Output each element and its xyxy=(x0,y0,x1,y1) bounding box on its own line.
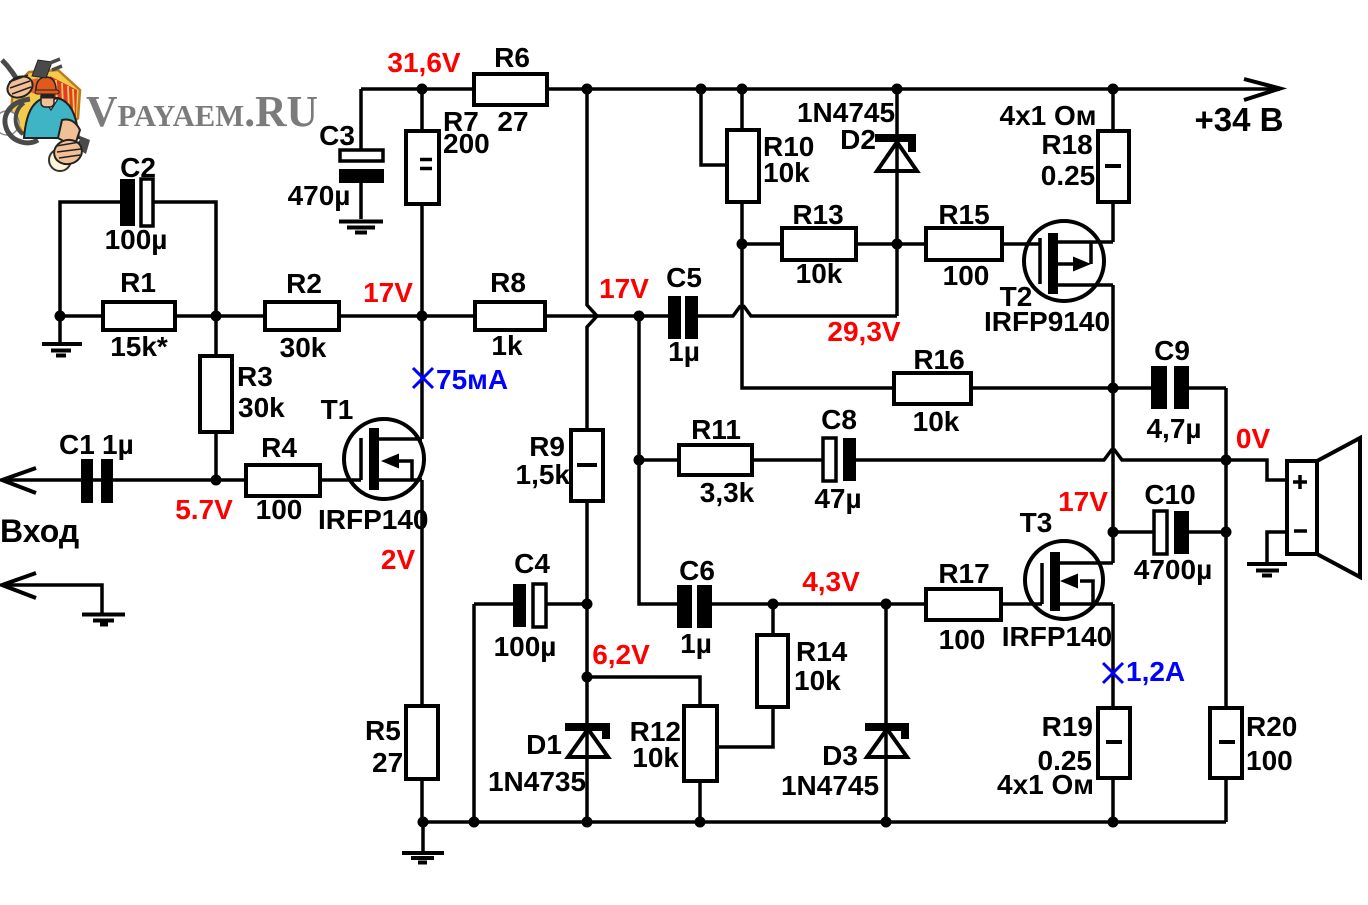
diode D3 zener 1N4745 xyxy=(865,723,909,757)
svg-text:100: 100 xyxy=(1246,745,1293,776)
wire rail tap to R10 left side xyxy=(701,89,727,165)
svg-text:C6: C6 xyxy=(679,555,715,586)
wire T1 source to R5 to bottom rail xyxy=(420,480,424,822)
svg-text:27: 27 xyxy=(497,106,528,137)
wire D2 node down to C5 wire corner xyxy=(895,244,899,316)
svg-text:27: 27 xyxy=(372,747,403,778)
svg-text:C8: C8 xyxy=(821,404,857,435)
svg-text:C1: C1 xyxy=(59,429,95,460)
resistor R18 xyxy=(1098,131,1129,202)
node 0V xyxy=(1221,455,1232,466)
svg-text:0.25: 0.25 xyxy=(1041,160,1096,191)
svg-text:30k: 30k xyxy=(280,332,327,363)
node rail-R7 xyxy=(417,84,428,95)
ground C3 xyxy=(339,222,383,233)
wire R13 node down through hop to R16 row xyxy=(742,244,894,388)
svg-text:31,6V: 31,6V xyxy=(387,47,460,78)
wire rail to R10 to R13 node xyxy=(740,89,744,244)
svg-text:4,7µ: 4,7µ xyxy=(1146,413,1201,444)
svg-text:470µ: 470µ xyxy=(288,180,351,211)
wire C3 to ground xyxy=(359,183,363,219)
capacitor C6 xyxy=(677,585,712,628)
current mark 75mA xyxy=(413,368,433,388)
wire R14 bottom to R12 right side xyxy=(717,707,773,747)
wire R17 to T3 gate xyxy=(1001,602,1042,606)
svg-text:1µ: 1µ xyxy=(102,429,134,460)
wire C5 right to D2 node corner with hop at 742 xyxy=(698,307,897,317)
node rail-tap xyxy=(696,84,707,95)
svg-text:C10: C10 xyxy=(1144,479,1195,510)
svg-text:T3: T3 xyxy=(1020,507,1053,538)
wire C5 node down R11 down to C6 row xyxy=(639,316,677,604)
logo left fist xyxy=(4,72,36,101)
wire C3 stub top xyxy=(359,89,363,151)
power arrow +34V xyxy=(1244,79,1280,100)
svg-text:C4: C4 xyxy=(514,548,550,579)
node rail-D1 xyxy=(582,817,593,828)
resistor R20 xyxy=(1210,708,1242,778)
wire R16 right to output node xyxy=(971,386,1113,390)
svg-text:R18: R18 xyxy=(1041,129,1092,160)
logo badge xyxy=(11,70,80,138)
svg-text:10k: 10k xyxy=(796,258,843,289)
capacitor C5 xyxy=(668,296,698,339)
svg-text:15k*: 15k* xyxy=(110,331,168,362)
node rail-C4 xyxy=(469,817,480,828)
ground input xyxy=(82,615,125,625)
wire C2 loop right leg xyxy=(154,202,216,316)
resistor R13 xyxy=(782,228,856,260)
node rail-R18 xyxy=(1108,84,1119,95)
node rail-R9 xyxy=(582,84,593,95)
svg-text:+34 В: +34 В xyxy=(1195,101,1284,138)
resistor R17 xyxy=(926,589,1001,620)
svg-text:100: 100 xyxy=(939,624,986,655)
wire C9 right to output column xyxy=(1189,386,1226,390)
svg-text:17V: 17V xyxy=(599,273,649,304)
node R11 branch xyxy=(634,455,645,466)
svg-text:10k: 10k xyxy=(632,742,679,773)
wire C8 to 0V node with hop at 1113 xyxy=(856,450,1226,460)
svg-text:10k: 10k xyxy=(794,665,841,696)
logo torso xyxy=(24,98,79,138)
svg-text:R5: R5 xyxy=(365,715,401,746)
input arrow xyxy=(2,468,36,493)
wire R13 right to R15 left xyxy=(856,242,926,246)
node rail-R12 xyxy=(695,817,706,828)
wire C10 right to output column xyxy=(1189,530,1226,534)
svg-text:100: 100 xyxy=(256,494,303,525)
logo plug xyxy=(32,60,52,78)
svg-text:D3: D3 xyxy=(822,740,858,771)
svg-text:29,3V: 29,3V xyxy=(827,316,900,347)
node 6.2V xyxy=(582,672,593,683)
wire rail to R9 with sideways hop over main row xyxy=(587,89,597,604)
wire D3 column xyxy=(884,604,888,822)
resistor R15 xyxy=(926,228,1002,260)
resistor R2 xyxy=(265,302,339,330)
resistor R6 xyxy=(474,74,547,105)
node rail-D3 xyxy=(881,817,892,828)
svg-text:1,2A: 1,2A xyxy=(1126,656,1185,687)
diode D2 zener 1N4745 xyxy=(875,134,917,171)
wire C4 to R9 node xyxy=(546,602,587,606)
node C4-R9 xyxy=(582,599,593,610)
svg-text:1N4735: 1N4735 xyxy=(488,766,586,797)
logo white coil circle xyxy=(0,111,19,135)
capacitor C1 xyxy=(81,459,113,503)
wire 6.2V row to R12 top xyxy=(587,677,700,706)
svg-text:R8: R8 xyxy=(490,267,526,298)
logo cable loops xyxy=(5,99,38,143)
resistor R4 xyxy=(246,465,320,496)
wire C2 loop left leg xyxy=(60,202,120,316)
svg-text:Vpayaem.RU: Vpayaem.RU xyxy=(86,87,318,136)
svg-text:R20: R20 xyxy=(1246,711,1297,742)
svg-text:C9: C9 xyxy=(1154,335,1190,366)
svg-text:5.7V: 5.7V xyxy=(175,494,233,525)
svg-text:R13: R13 xyxy=(792,199,843,230)
ground R1 xyxy=(42,316,82,356)
svg-text:R19: R19 xyxy=(1042,711,1093,742)
svg-text:100µ: 100µ xyxy=(494,631,557,662)
wire C10 row left xyxy=(1113,530,1154,534)
svg-text:R3: R3 xyxy=(237,361,273,392)
resistor R16 xyxy=(894,373,971,404)
svg-text:17V: 17V xyxy=(363,277,413,308)
resistor R10 xyxy=(727,130,759,202)
wire R7/T1 column xyxy=(420,89,424,439)
node T3-C10 xyxy=(1108,527,1119,538)
node rail-R10 xyxy=(737,84,748,95)
svg-text:10k: 10k xyxy=(763,157,810,188)
wire rail to R18 to T2 top stub xyxy=(1111,89,1115,242)
svg-text:R11: R11 xyxy=(691,414,741,445)
node D2-R13-R15 xyxy=(892,239,903,250)
node C1-R3-R4 xyxy=(211,475,222,486)
svg-text:0V: 0V xyxy=(1236,423,1271,454)
logo helmet xyxy=(36,77,56,93)
svg-text:6,2V: 6,2V xyxy=(592,639,650,670)
wire R11 row left xyxy=(639,458,679,462)
svg-text:R14: R14 xyxy=(796,636,848,667)
node C6-D3 xyxy=(881,599,892,610)
capacitor C3 xyxy=(339,150,384,183)
wire C6 to R17 row xyxy=(712,602,926,606)
wire R15 to T2 gate xyxy=(1002,242,1040,246)
svg-text:R17: R17 xyxy=(938,558,989,589)
wire R9 bottom to 6.2V node to D1 to bottom rail xyxy=(585,604,589,822)
svg-text:3,3k: 3,3k xyxy=(700,477,755,508)
diode D1 zener 1N4735 xyxy=(565,723,610,757)
wire main ground stub xyxy=(421,822,425,851)
transistor T3 IRFP140 xyxy=(1025,541,1113,619)
svg-text:R6: R6 xyxy=(494,42,530,73)
svg-text:2V: 2V xyxy=(381,544,416,575)
svg-text:R4: R4 xyxy=(261,432,297,463)
wire top +34V rail xyxy=(361,87,1280,91)
ground main xyxy=(402,853,444,863)
resistor R3 xyxy=(200,356,232,432)
svg-text:4x1 Ом: 4x1 Ом xyxy=(1000,100,1097,131)
svg-text:IRFP140: IRFP140 xyxy=(318,504,429,535)
svg-text:10k: 10k xyxy=(913,406,960,437)
svg-text:75мА: 75мА xyxy=(436,364,508,395)
wire R11 to C8 xyxy=(752,458,823,462)
capacitor C2 xyxy=(120,179,153,226)
logo face xyxy=(41,92,54,107)
wire output node to C9 xyxy=(1113,386,1151,390)
resistor R8 xyxy=(475,302,545,330)
svg-text:4x1 Ом: 4x1 Ом xyxy=(997,769,1094,800)
resistor R7 xyxy=(406,131,439,204)
wire rail to D2 to R13/R15 node xyxy=(895,89,899,244)
node C6-R14 xyxy=(768,599,779,610)
resistor R11 xyxy=(679,445,752,475)
resistor R14 xyxy=(757,635,788,707)
wire C9 right down output column to R20 to bottom rail xyxy=(1224,388,1228,822)
wire R14 top stub xyxy=(771,604,775,635)
speaker xyxy=(1287,438,1360,577)
svg-text:47µ: 47µ xyxy=(814,483,861,514)
svg-text:200: 200 xyxy=(443,128,490,159)
node R1-R2-C2 xyxy=(211,311,222,322)
svg-text:D2: D2 xyxy=(840,124,876,155)
svg-text:1k: 1k xyxy=(491,330,523,361)
svg-text:1,5k: 1,5k xyxy=(516,459,571,490)
wire input row C1 R4 to T1 gate xyxy=(2,478,361,482)
svg-text:R1: R1 xyxy=(120,267,156,298)
wire bottom ground rail xyxy=(423,820,1226,824)
resistor R9 xyxy=(571,430,603,501)
svg-text:4,3V: 4,3V xyxy=(802,566,860,597)
svg-text:1N4745: 1N4745 xyxy=(781,770,879,801)
node rail-gnd xyxy=(418,817,429,828)
wire T3 source to R19 to bottom rail xyxy=(1111,604,1115,822)
node C2-R1 left xyxy=(55,311,66,322)
wire R12 bottom to rail xyxy=(698,781,702,822)
svg-text:Вход: Вход xyxy=(0,513,79,549)
svg-text:T1: T1 xyxy=(321,394,354,425)
wire C4 left leg down to bottom rail xyxy=(472,604,476,822)
capacitor C10 xyxy=(1154,511,1189,554)
svg-text:R15: R15 xyxy=(938,199,989,230)
wire speaker minus to ground xyxy=(1267,532,1287,562)
resistor R1 xyxy=(103,302,175,330)
svg-text:IRFP9140: IRFP9140 xyxy=(984,306,1110,337)
svg-text:C3: C3 xyxy=(319,120,355,151)
resistor R5 xyxy=(406,706,438,779)
node C5 branch xyxy=(634,311,645,322)
node rail-D2 xyxy=(892,84,903,95)
svg-text:100: 100 xyxy=(943,260,990,291)
capacitor C8 xyxy=(823,438,856,481)
node C10-R20 col xyxy=(1221,527,1232,538)
node rail-R19 xyxy=(1108,817,1119,828)
wire input ground arm xyxy=(2,585,102,613)
svg-text:R9: R9 xyxy=(529,431,565,462)
svg-text:R16: R16 xyxy=(913,344,964,375)
svg-text:17V: 17V xyxy=(1058,486,1108,517)
wire 0V row to speaker plus xyxy=(1226,460,1287,480)
svg-text:1µ: 1µ xyxy=(680,628,712,659)
ground speaker xyxy=(1247,564,1287,576)
current mark 1,2A xyxy=(1103,663,1123,683)
transistor T2 IRFP9140 xyxy=(1024,221,1113,301)
resistor R12 xyxy=(684,706,717,781)
wire R13 left to node xyxy=(742,242,782,246)
node T2-C9-R16 xyxy=(1108,383,1119,394)
node R10-R13 xyxy=(737,239,748,250)
svg-text:30k: 30k xyxy=(238,392,285,423)
resistor R19 xyxy=(1098,708,1130,778)
logo right arm and fist xyxy=(58,119,80,148)
input ground arrow xyxy=(2,573,36,598)
svg-text:C2: C2 xyxy=(120,152,156,183)
capacitor C4 xyxy=(513,584,546,627)
node R2-R8-R7 xyxy=(417,311,428,322)
svg-text:C5: C5 xyxy=(666,262,702,293)
wire R3 column xyxy=(214,316,218,480)
wire T2 source to output node to C10 node xyxy=(1111,285,1115,563)
svg-text:100µ: 100µ xyxy=(105,224,168,255)
capacitor C9 xyxy=(1151,366,1189,409)
wire C4 row left xyxy=(474,602,513,606)
svg-text:IRFP140: IRFP140 xyxy=(1002,621,1113,652)
svg-text:R2: R2 xyxy=(286,268,322,299)
wire main middle row R1-R2-R8 xyxy=(60,314,668,318)
svg-text:1µ: 1µ xyxy=(668,336,700,367)
transistor T1 IRFP140 xyxy=(344,419,424,499)
svg-text:D1: D1 xyxy=(526,729,562,760)
svg-text:4700µ: 4700µ xyxy=(1134,554,1212,585)
